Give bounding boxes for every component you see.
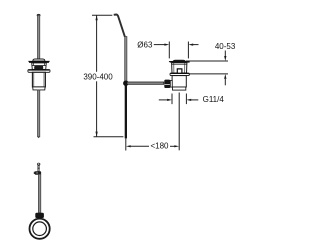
svg-text:40-53: 40-53 <box>215 42 236 51</box>
dimension 40-53 arrows <box>224 51 226 86</box>
valve cup side view <box>172 63 187 73</box>
ball rod knurled nut side view <box>164 80 172 88</box>
ring handle (detail view) <box>29 219 49 239</box>
dimension G11/4 arrows <box>159 99 199 101</box>
valve cap side view <box>169 60 190 63</box>
svg-text:Ø63: Ø63 <box>137 40 153 49</box>
valve cap front view <box>28 59 50 63</box>
valve body front view <box>32 72 45 90</box>
mounting flange side view <box>170 73 189 76</box>
pull rod (detail view) <box>38 174 40 213</box>
dimension 390-400 vertical line with arrows <box>95 15 97 136</box>
svg-text:<180: <180 <box>150 141 169 150</box>
valve upper cup front view <box>32 63 47 70</box>
lift rod lower (front view) <box>38 90 40 138</box>
dimension G11/4 extension ticks <box>172 94 186 105</box>
pull rod (bent, rear view) <box>114 15 127 139</box>
valve centerline below body <box>178 93 180 151</box>
clamp block (detail view) <box>34 171 41 175</box>
lift rod upper (front view) <box>37 14 41 61</box>
dimension 390-400 bottom extension line <box>94 136 124 138</box>
dimension Ø63 leader and arrows <box>154 44 199 46</box>
pull knob eyelet (detail view) <box>37 163 40 172</box>
knurled nut front view <box>34 66 43 70</box>
dimension 390-400 top extension line <box>92 14 112 16</box>
ferrule block (detail view) <box>35 213 44 218</box>
dimension 40-53 extension lines <box>186 61 228 74</box>
pivot junction dot <box>123 81 128 86</box>
svg-text:390-400: 390-400 <box>83 73 113 82</box>
horizontal lever rod <box>127 82 164 84</box>
mounting flange front view <box>28 70 50 73</box>
dimension Ø63 extension lines <box>169 42 188 59</box>
valve body side view <box>172 76 186 91</box>
dimension <180 line with arrows <box>126 145 179 147</box>
dimension <180 left reference tick <box>125 139 127 151</box>
lever housing notch side view <box>177 69 182 73</box>
svg-text:G11/4: G11/4 <box>203 95 225 104</box>
